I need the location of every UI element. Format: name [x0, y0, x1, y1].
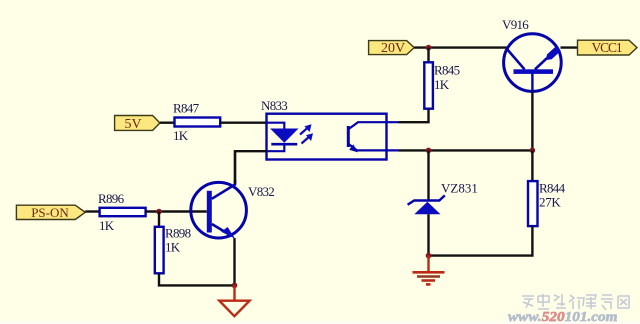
wire zener junction down to VZ831	[427, 150, 429, 199]
svg-text:R847: R847	[173, 101, 200, 116]
wire V916 base down to net	[531, 91, 533, 150]
light arrow upper	[300, 124, 312, 134]
base bar	[207, 191, 212, 233]
wire V916 right to VCC1	[561, 46, 578, 48]
emitter arrow	[221, 227, 235, 239]
cathode bar with zener tails	[408, 195, 445, 204]
svg-text:VZ831: VZ831	[441, 181, 478, 196]
ground power-gnd under V832	[219, 285, 249, 316]
svg-text:www.520101.com: www.520101.com	[508, 310, 618, 324]
wire V832 collector up	[234, 151, 236, 184]
svg-text:R896: R896	[98, 191, 125, 206]
right lead with arrow	[535, 48, 558, 70]
svg-text:27K: 27K	[539, 195, 561, 210]
LED triangle	[271, 129, 297, 142]
ground earth under VZ831	[413, 256, 445, 285]
phototransistor emitter arrow	[349, 144, 358, 152]
watermark site name	[522, 294, 629, 310]
node R896/R898 junction	[156, 209, 162, 215]
node V916 base junction	[530, 148, 536, 154]
resistor R845	[424, 62, 459, 108]
transistor V916	[502, 17, 561, 91]
resistor R898	[155, 226, 191, 274]
svg-text:N833: N833	[261, 98, 287, 113]
base bar	[514, 69, 554, 74]
wire 20V to V916 emitter-left	[414, 46, 506, 48]
LED cathode lead	[267, 146, 285, 152]
node 20V/R845 junction	[426, 45, 432, 51]
wire PS-ON to R896	[85, 210, 99, 212]
LED anode lead	[267, 123, 285, 129]
anode triangle	[414, 202, 440, 214]
wire R896 to V832 base	[146, 210, 207, 212]
svg-text:PS-ON: PS-ON	[31, 205, 69, 220]
svg-text:V832: V832	[248, 184, 274, 199]
zener diode VZ831	[408, 181, 478, 215]
light arrow lower	[302, 133, 314, 143]
svg-text:1K: 1K	[173, 128, 189, 143]
wire junction down to R844	[531, 150, 533, 181]
wire junction to R898	[158, 212, 160, 227]
wire R844 bottom to ground net	[429, 226, 533, 256]
svg-text:VCC1: VCC1	[591, 40, 621, 55]
port 20V	[369, 41, 415, 57]
svg-text:1K: 1K	[434, 77, 450, 92]
svg-text:R898: R898	[165, 226, 191, 241]
optocoupler N833	[261, 98, 399, 160]
phototransistor collector	[349, 122, 399, 129]
svg-text:R845: R845	[434, 63, 460, 78]
wire R847 to N833 pin1	[220, 121, 266, 123]
svg-text:1K: 1K	[165, 240, 181, 255]
wire R845 bottom to N833 collector pin	[399, 109, 429, 123]
wire 5V to R847	[160, 121, 175, 123]
phototransistor base bar	[347, 126, 350, 147]
emitter lead	[212, 224, 231, 236]
wire N833 emitter to V916 base net	[399, 149, 533, 151]
svg-text:1K: 1K	[99, 218, 115, 233]
wire R898 bottom to emitter node	[159, 273, 235, 285]
port 5V	[115, 116, 160, 132]
node ground junction	[426, 253, 432, 259]
node zener top junction	[426, 148, 432, 154]
phototransistor emitter	[349, 144, 399, 150]
resistor R896	[98, 191, 146, 233]
resistor R844	[528, 181, 566, 227]
svg-text:R844: R844	[539, 181, 566, 196]
transistor V832	[191, 180, 274, 239]
bottom edge strip	[0, 321, 640, 324]
wire N833 cathode to V832 collector	[235, 151, 267, 183]
wire V832 emitter down	[233, 238, 235, 285]
wire VZ831 anode down	[427, 214, 429, 255]
left lead	[506, 48, 524, 69]
wire junction down to R845	[427, 48, 429, 63]
node emitter/R898 junction	[232, 283, 238, 289]
resistor R847	[173, 101, 220, 144]
emitter arrow	[546, 46, 561, 60]
port VCC1	[578, 40, 638, 55]
port PS-ON	[16, 205, 85, 220]
svg-text:20V: 20V	[381, 41, 405, 56]
svg-text:5V: 5V	[124, 117, 141, 132]
base lead down	[531, 73, 533, 91]
LED cathode bar	[271, 143, 297, 146]
svg-text:V916: V916	[502, 17, 529, 32]
collector lead	[212, 180, 235, 199]
